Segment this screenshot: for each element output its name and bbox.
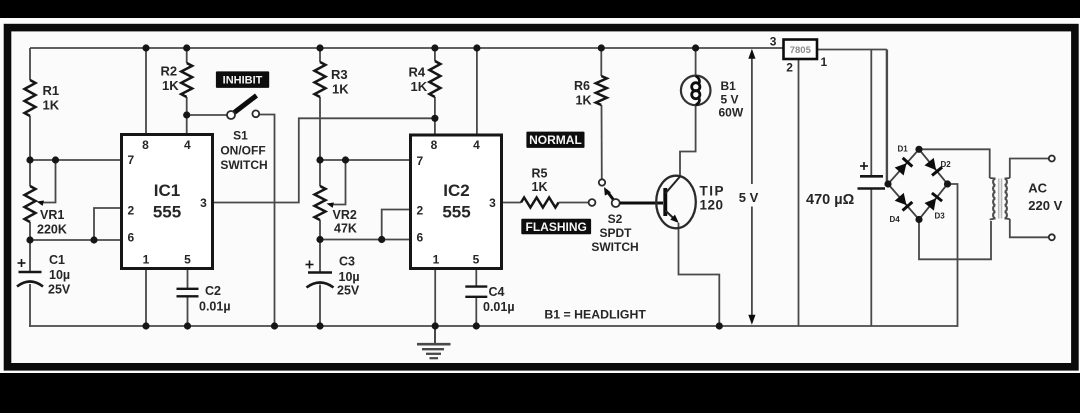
svg-text:SWITCH: SWITCH	[591, 240, 638, 254]
svg-text:10µ: 10µ	[49, 268, 70, 282]
IC2 label	[442, 181, 470, 222]
wire VR1 wiper	[37, 160, 56, 206]
IC U1 555 box	[122, 135, 213, 269]
capacitor C4	[465, 285, 514, 314]
node top rail / R3	[316, 44, 323, 51]
svg-text:3: 3	[200, 196, 207, 210]
svg-text:NORMAL: NORMAL	[529, 133, 582, 147]
wire IC1 pin 2 jog	[94, 208, 123, 240]
capacitor C1	[17, 253, 71, 297]
svg-text:1K: 1K	[43, 98, 60, 113]
svg-text:4: 4	[184, 138, 191, 152]
svg-text:2: 2	[127, 204, 134, 218]
svg-text:IC1: IC1	[154, 181, 180, 200]
wire 7805 output	[817, 49, 887, 51]
svg-text:1: 1	[821, 55, 828, 69]
switch S2 SPDT	[589, 179, 663, 207]
svg-text:470 µΩ: 470 µΩ	[806, 192, 855, 208]
wire C4 to ground rail	[475, 297, 477, 326]
bridge node left	[884, 180, 891, 187]
svg-text:FLASHING: FLASHING	[526, 220, 587, 234]
svg-text:C2: C2	[205, 284, 221, 298]
IC2 pin 3	[489, 196, 496, 210]
resistor R6	[574, 76, 607, 108]
node top rail / R4	[431, 44, 438, 51]
wire transformer primary to AC terminal top	[1010, 159, 1049, 179]
wire R3 top lead	[319, 48, 321, 62]
IC1 pin 6	[127, 231, 134, 245]
svg-text:D4: D4	[890, 215, 901, 224]
node pin2 jog IC2	[378, 236, 385, 243]
svg-text:R3: R3	[331, 67, 348, 82]
wire VR2 bottom to node	[319, 220, 321, 241]
IC2 pin 8	[431, 138, 438, 152]
node rail / S1 drop	[271, 322, 278, 329]
wire R4 top lead	[434, 48, 436, 61]
svg-text:5 V: 5 V	[739, 190, 759, 205]
node top rail / R6	[598, 44, 605, 51]
wire IC1 pin 1 to ground rail	[145, 268, 147, 327]
wire junction to IC2 pin 8	[434, 118, 436, 136]
label B1 = HEADLIGHT	[544, 308, 646, 322]
regulator U3 7805	[770, 34, 828, 74]
wire bridge bottom to transformer secondary	[919, 220, 991, 260]
svg-text:60W: 60W	[719, 106, 744, 120]
IC1 pin 2	[127, 204, 134, 218]
node top rail / B1	[692, 44, 699, 51]
label B1 5V 60W	[719, 79, 744, 120]
node rail / C4	[473, 322, 480, 329]
wire C3 to ground rail	[319, 285, 321, 327]
svg-text:2: 2	[786, 60, 793, 74]
wire top +V rail	[30, 47, 784, 49]
svg-text:1K: 1K	[411, 79, 428, 94]
svg-text:6: 6	[416, 231, 423, 245]
wire R3 bottom to node B	[319, 97, 321, 186]
wire 470u cap top lead	[870, 50, 872, 178]
wire 7805 pin 2 to ground rail	[798, 59, 800, 326]
svg-text:INHIBIT: INHIBIT	[223, 75, 263, 87]
wire VR1 bottom node to C1	[29, 240, 31, 273]
wire C2 to ground rail	[187, 297, 189, 327]
wire IC2 pin 2 jog	[382, 210, 412, 240]
wire R2 node to S1	[187, 114, 228, 116]
resistor R3	[315, 62, 350, 97]
svg-text:555: 555	[153, 203, 181, 222]
svg-text:S2: S2	[608, 212, 623, 226]
IC1 pin 4	[184, 138, 191, 152]
capacitor C5 470uF	[858, 162, 886, 189]
wire IC2 pin 5 to C4	[475, 268, 477, 288]
wire C1 to ground rail	[29, 284, 31, 327]
wire R2 node to IC1 pin 4	[186, 115, 188, 136]
node VR1 bottom	[26, 236, 33, 243]
svg-text:SPDT: SPDT	[599, 226, 632, 240]
svg-text:1: 1	[143, 253, 150, 267]
svg-text:AC: AC	[1028, 181, 1047, 196]
label INHIBIT	[216, 71, 269, 88]
annotation 5V rail arrow	[748, 49, 755, 325]
IC1 label	[153, 181, 181, 222]
AC terminal bottom	[1049, 234, 1055, 240]
label FLASHING	[521, 219, 591, 235]
wire TIP120 emitter to ground rail	[679, 223, 720, 326]
resistor R4	[409, 61, 441, 97]
switch S1	[227, 96, 259, 120]
wire R4 bottom to junction	[434, 97, 436, 118]
wire S1 to inhibit drop	[260, 115, 275, 327]
svg-text:SWITCH: SWITCH	[220, 158, 267, 172]
node VR1 wiper tap	[52, 156, 59, 163]
svg-text:B1 = HEADLIGHT: B1 = HEADLIGHT	[544, 308, 646, 322]
svg-text:D1: D1	[898, 145, 909, 154]
svg-text:8: 8	[142, 138, 149, 152]
svg-text:8: 8	[431, 138, 438, 152]
IC2 pin 2	[416, 204, 423, 218]
lamp B1	[681, 76, 711, 106]
IC1 pin 5	[184, 253, 191, 267]
svg-text:1K: 1K	[532, 180, 548, 194]
node R4 / IC1 pin3 junction	[431, 115, 438, 122]
node A (pin7 branch)	[26, 156, 33, 163]
wire B1 lamp to TIP120 collector	[680, 105, 696, 178]
node rail / emitter	[716, 322, 723, 329]
IC2 pin 4	[473, 138, 480, 152]
label S2 SPDT SWITCH	[591, 212, 638, 254]
node rail / IC1 pin1	[142, 322, 149, 329]
wire top rail to IC1 pin 8	[145, 48, 147, 136]
wire VR1 node to IC1 pin 6	[29, 239, 123, 241]
wire VR2 wiper	[327, 160, 346, 208]
ground	[417, 326, 451, 358]
svg-text:C4: C4	[489, 285, 505, 299]
wire IC2 pin 1 to ground rail	[434, 268, 436, 327]
AC terminal top	[1049, 156, 1055, 162]
IC1 pin 7	[127, 153, 134, 167]
node rail / IC2 pin1 ground	[432, 322, 439, 329]
potentiometer VR1 220K	[25, 186, 67, 237]
IC2 pin 5	[473, 253, 480, 267]
diode D1	[895, 145, 913, 176]
wire left vertical (R1/VR1 branch top)	[29, 48, 31, 80]
node pin2 jog IC1	[90, 236, 97, 243]
wire bridge right corner down to ground rail	[948, 184, 958, 327]
wire R2 top lead	[186, 48, 188, 63]
svg-text:C1: C1	[49, 253, 65, 267]
svg-text:IC2: IC2	[443, 181, 469, 200]
resistor R2	[161, 63, 193, 97]
svg-text:1: 1	[433, 253, 440, 267]
svg-text:ON/OFF: ON/OFF	[220, 144, 265, 158]
bridge node top	[915, 146, 922, 153]
IC1 pin 1	[143, 253, 150, 267]
wire R6 top lead	[600, 48, 602, 76]
wire ground rail	[29, 325, 957, 327]
capacitor C3	[306, 255, 360, 298]
svg-text:1K: 1K	[576, 94, 592, 108]
svg-text:7805: 7805	[790, 45, 812, 56]
svg-text:4: 4	[473, 138, 480, 152]
node top rail / R2	[183, 44, 190, 51]
wire VR2 node to IC2 pin 6	[319, 239, 412, 241]
svg-text:0.01µ: 0.01µ	[199, 300, 231, 314]
potentiometer VR2 47K	[315, 186, 357, 236]
wire 470u cap to ground rail	[870, 189, 872, 327]
svg-text:D2: D2	[941, 160, 952, 169]
svg-text:25V: 25V	[337, 284, 360, 298]
wire IC1 pin 5 to C2	[187, 268, 189, 290]
label S1 ON/OFF SWITCH	[220, 129, 267, 173]
wire top rail to IC2 pin 4	[476, 48, 478, 136]
diode D3	[925, 193, 946, 220]
svg-text:C3: C3	[339, 255, 355, 269]
IC2 pin 1	[433, 253, 440, 267]
node rail / C3	[316, 322, 323, 329]
svg-text:D3: D3	[935, 212, 946, 221]
wire VR1 bottom to node	[29, 222, 31, 241]
wire transformer primary to AC terminal bottom	[1010, 219, 1049, 237]
wire IC2 pin 3 to R5	[501, 202, 522, 204]
wire node A to IC1 pin 7	[29, 159, 123, 161]
node rail / C2	[184, 322, 191, 329]
svg-text:S1: S1	[233, 129, 248, 143]
svg-text:TIP: TIP	[700, 184, 726, 199]
node VR2 wiper tap	[342, 156, 349, 163]
label 5 V	[739, 190, 759, 205]
svg-text:R2: R2	[161, 64, 178, 79]
svg-text:VR2: VR2	[333, 208, 357, 222]
svg-text:R1: R1	[43, 83, 60, 98]
bridge node right	[944, 180, 951, 187]
svg-text:0.01µ: 0.01µ	[483, 300, 515, 314]
diode D4	[890, 193, 913, 224]
resistor R1	[25, 80, 60, 116]
svg-text:5: 5	[473, 253, 480, 267]
capacitor C2	[177, 284, 231, 314]
label NORMAL	[526, 132, 584, 148]
svg-text:3: 3	[489, 196, 496, 210]
svg-text:7: 7	[127, 153, 134, 167]
wire 7805 output down to bridge left corner	[886, 50, 888, 185]
wire node B to IC2 pin 7	[319, 159, 412, 161]
diode D2	[924, 158, 951, 176]
bridge rectifier frame	[888, 149, 948, 219]
wire R5 to S2 flashing contact	[559, 202, 589, 204]
IC U2 555 box	[411, 135, 502, 269]
transformer T1	[990, 178, 1010, 220]
svg-text:5 V: 5 V	[721, 92, 739, 106]
wire R2 bottom lead	[186, 97, 188, 116]
wire R1 bottom to node	[29, 116, 31, 186]
svg-text:555: 555	[442, 203, 470, 222]
svg-text:7: 7	[416, 154, 423, 168]
node B (pin7 branch IC2)	[316, 156, 323, 163]
label TIP 120	[700, 184, 726, 213]
wire IC1 pin 3 to IC2 pin 8 junction	[212, 118, 435, 202]
svg-text:3: 3	[770, 34, 777, 48]
label 470 uF	[806, 192, 855, 208]
svg-text:VR1: VR1	[40, 208, 64, 222]
wire top rail to B1 lamp	[695, 48, 697, 76]
svg-text:120: 120	[700, 198, 724, 213]
svg-text:220 V: 220 V	[1028, 198, 1062, 213]
svg-text:R5: R5	[532, 167, 548, 181]
IC2 pin 7	[416, 154, 423, 168]
svg-text:47K: 47K	[334, 222, 357, 236]
svg-text:6: 6	[127, 231, 134, 245]
wire VR2 node to C3	[319, 240, 321, 274]
wire R6 to S2 normal contact	[601, 105, 603, 179]
svg-text:5: 5	[184, 253, 191, 267]
label AC 220V	[1028, 181, 1062, 214]
node R2 / S1 / pin4	[183, 111, 190, 118]
node top rail / IC1 pin8	[142, 44, 149, 51]
svg-text:10µ: 10µ	[339, 270, 360, 284]
resistor R5	[521, 167, 559, 208]
wire bridge top to transformer secondary	[919, 149, 990, 178]
svg-text:220K: 220K	[37, 223, 67, 237]
svg-text:R4: R4	[409, 65, 426, 80]
IC1 pin 8	[142, 138, 149, 152]
node VR2 bottom	[316, 236, 323, 243]
svg-text:R6: R6	[574, 79, 590, 93]
bridge node bottom	[915, 216, 922, 223]
IC2 pin 6	[416, 231, 423, 245]
transistor Q1 TIP120	[656, 176, 696, 229]
svg-text:1K: 1K	[162, 78, 179, 93]
svg-text:1K: 1K	[332, 82, 349, 97]
svg-text:2: 2	[416, 204, 423, 218]
svg-text:B1: B1	[721, 79, 737, 93]
svg-text:25V: 25V	[48, 283, 71, 297]
node top rail / IC2 pin4	[473, 44, 480, 51]
IC1 pin 3	[200, 196, 207, 210]
